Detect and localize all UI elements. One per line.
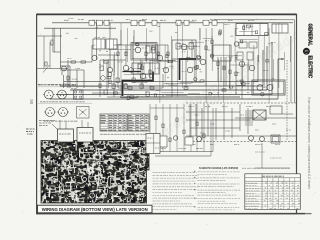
svg-text:56: 56	[29, 99, 34, 104]
svg-text:If we can be of additional ser: If we can be of additional service, cont…	[307, 97, 312, 190]
svg-text:SCHEMATIC DIAGRAM (LATE VERSIO: SCHEMATIC DIAGRAM (LATE VERSION)	[199, 166, 238, 170]
svg-text:ELECTRIC: ELECTRIC	[307, 56, 313, 79]
svg-text:WIRING DIAGRAM (BOTTOM VIEW) L: WIRING DIAGRAM (BOTTOM VIEW) LATE VERSIO…	[42, 207, 148, 212]
svg-text:GENERAL: GENERAL	[307, 24, 313, 47]
